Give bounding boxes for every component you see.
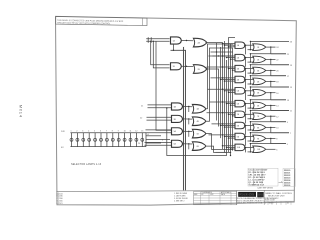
and gate G2 (235, 54, 245, 60)
svg-text:MADE AND PRINTED IN U.S.A.: MADE AND PRINTED IN U.S.A. (237, 202, 263, 205)
svg-text:SELECTOR LAMPS 1-13: SELECTOR LAMPS 1-13 (71, 163, 102, 166)
title strip separator line (56, 190, 294, 191)
and gate G9 (235, 133, 245, 139)
or gate H9 (253, 135, 266, 142)
wire U5B out to bus (205, 134, 233, 150)
lamp L12 (135, 131, 138, 147)
input stub row B2 (140, 117, 171, 120)
title block dividers (237, 190, 264, 205)
wire U1A out (182, 40, 194, 42)
wire H8 output net 10 (265, 127, 289, 133)
wire taps to and gate G9 (209, 134, 236, 139)
wire taps to and gate G3 (207, 66, 236, 71)
wire taps to and gate G2 (209, 55, 236, 60)
svg-text:.XXX: .XXX (210, 194, 213, 196)
and gate U3B (172, 115, 183, 122)
drawing notes block (174, 193, 188, 203)
svg-text:T1 XFMR 24 V CT: T1 XFMR 24 V CT (249, 184, 265, 187)
wire taps to and gate G5 (208, 89, 236, 94)
wire H1 output net 24 (265, 46, 286, 53)
wire upper output net 21 (250, 53, 290, 56)
svg-text:.XX: .XX (201, 194, 203, 196)
wire upper output net 15 (250, 86, 293, 89)
and gate U1B (171, 63, 182, 70)
wire taps to and gate G4 (211, 77, 236, 82)
wire bus top jumpers (211, 51, 234, 56)
lamp L13 (141, 131, 144, 147)
and gate U5A (172, 128, 183, 135)
wire taps to and gate G7 (207, 112, 236, 117)
svg-text:4: 4 (88, 131, 89, 133)
wire upper output net 17 (250, 75, 290, 78)
and gate G4 (235, 76, 245, 82)
wire G10 out to H10 (244, 144, 254, 153)
wire U4A out to bus (205, 44, 233, 109)
note under table (258, 187, 274, 190)
wire G7 out to H7 (244, 111, 254, 124)
lamp L5 (94, 131, 97, 147)
or gate H7 (253, 113, 266, 120)
label lamp panel (71, 163, 102, 166)
and gate G8 (235, 122, 245, 128)
wire H6 output net 14 (265, 105, 289, 111)
and gate U6A (172, 140, 183, 147)
or gate U2B (193, 65, 206, 74)
or gate U5B (192, 129, 205, 138)
or gate U4A (192, 105, 205, 114)
svg-text:5: 5 (94, 131, 95, 133)
wire upper output net 11 (250, 110, 293, 113)
svg-text:10: 10 (124, 131, 126, 133)
svg-text:4. SEE SHT 2: 4. SEE SHT 2 (174, 200, 185, 202)
revision table (57, 192, 63, 205)
or gate U4B (192, 117, 205, 126)
wire H9 output net 8 (265, 138, 286, 144)
wire U1B out (182, 65, 194, 67)
wire bus from input stubs down left column (150, 41, 171, 131)
svg-text:550326: 550326 (284, 185, 290, 187)
notes box (56, 17, 147, 26)
or gate H5 (253, 89, 266, 96)
title text (265, 192, 293, 202)
svg-text:M014: M014 (19, 105, 23, 118)
svg-text:7: 7 (106, 131, 107, 133)
wire U3A out (183, 106, 192, 108)
input stub row B1 (141, 105, 171, 108)
connector input stub J1-2 (146, 40, 169, 43)
reference designation table (248, 168, 278, 186)
wire U5A out (183, 130, 192, 132)
lamp L8 (111, 131, 114, 147)
svg-text:50320: 50320 (269, 203, 274, 205)
manufacturer address lines (237, 197, 269, 205)
or gate H8 (253, 124, 266, 131)
wire upper output net 13 (250, 99, 290, 102)
wire inter-column junctions left block (186, 40, 227, 153)
wire feedback loop bottom (166, 60, 226, 156)
or gate H6 (253, 102, 266, 109)
wire taps to and gate G1 (222, 43, 235, 48)
wire bus matrix verticals (217, 37, 236, 156)
and gate G3 (235, 65, 245, 71)
wire taps to and gate G10 (222, 145, 235, 150)
svg-text:Rock-Ola: Rock-Ola (239, 193, 254, 197)
wire U2A out to bus (205, 43, 222, 149)
wire bus pair long vertical (171, 44, 186, 190)
svg-text:DRN: DRN (194, 194, 197, 196)
svg-text:12: 12 (135, 131, 137, 133)
wire upper output net 23 (250, 41, 293, 44)
title block fields row (264, 201, 294, 205)
lamp L2 (76, 131, 79, 147)
svg-text:LAST REF DESIG: LAST REF DESIG (258, 187, 274, 190)
wire U4B out to bus (205, 48, 233, 121)
wire G2 out to H2 (244, 54, 254, 67)
or gate H3 (253, 67, 266, 74)
wire G8 out to H8 (244, 122, 254, 135)
wire U6A out (183, 143, 192, 145)
approvals table (194, 191, 237, 205)
and gate G10 (235, 144, 245, 150)
and gate G6 (235, 100, 245, 106)
connector input stub J1-1 (146, 37, 169, 40)
wire upper output net 9 (250, 121, 289, 124)
and gate G5 (235, 88, 245, 94)
or gate H4 (253, 78, 266, 85)
svg-text:13: 13 (141, 131, 143, 133)
wire G1 out to H1 (244, 41, 254, 54)
or gate U2A (193, 38, 206, 47)
drawing number M014 vertical text (19, 105, 23, 118)
svg-text:8: 8 (112, 131, 113, 133)
svg-text:2: 2 (76, 131, 77, 133)
wire ladder right end (146, 133, 170, 147)
reference qty column (283, 169, 295, 187)
lamp L4 (88, 131, 91, 147)
lamp L6 (100, 131, 103, 147)
wire U2B out to bus (205, 69, 218, 127)
or gate U6B (192, 142, 205, 151)
and gate U1A (171, 37, 182, 44)
lamp L3 (82, 131, 85, 147)
lamp ladder bottom rail (61, 147, 146, 149)
wire G5 out to H5 (244, 87, 254, 100)
wire U3B out (183, 118, 192, 120)
wire upper output net 5 (250, 143, 289, 146)
and gate G7 (235, 111, 245, 117)
wire H3 output net 20 (265, 70, 286, 76)
wire U6B out to bus (205, 146, 231, 153)
svg-text:24V: 24V (61, 131, 65, 133)
lamp L1 (70, 131, 73, 147)
svg-text:3: 3 (82, 131, 83, 133)
svg-text:1: 1 (71, 131, 72, 133)
or gate H1 (253, 44, 266, 51)
lamp L9 (117, 131, 120, 147)
input stub row B4 (138, 142, 171, 145)
svg-text:11: 11 (130, 131, 132, 133)
wire upper output net 19 (250, 64, 293, 67)
wire taps to and gate G8 (212, 123, 236, 128)
svg-text:6: 6 (100, 131, 101, 133)
svg-text:1/1: 1/1 (287, 203, 289, 205)
arrow to qty column (279, 182, 283, 183)
lamp L7 (105, 131, 108, 147)
wire G3 out to H3 (244, 65, 254, 78)
svg-text:MFG: MFG (258, 195, 263, 197)
wire H10 output net 6 (265, 149, 278, 151)
wire taps to and gate G6 (210, 101, 236, 106)
and gate U3A (172, 103, 183, 110)
wire H5 output net 16 (265, 92, 286, 100)
manufacturer logo Rock-Ola (238, 192, 264, 197)
wire H4 output net 18 (265, 81, 289, 87)
or gate H2 (253, 56, 266, 63)
svg-text:E 2521: E 2521 (57, 203, 63, 205)
wire G4 out to H4 (244, 76, 254, 89)
wire H2 output net 22 (265, 59, 289, 65)
wire G9 out to H9 (244, 133, 254, 146)
lamp L11 (129, 131, 132, 147)
or gate H10 (253, 146, 266, 153)
wire upper output net 7 (250, 132, 292, 135)
and gate G1 (235, 42, 245, 48)
input stub row B3 (146, 130, 172, 133)
lamp L10 (123, 131, 126, 147)
svg-text:9: 9 (118, 131, 119, 133)
wire G6 out to H6 (244, 100, 254, 113)
lamp ladder top rail (61, 131, 146, 133)
wire H7 output net 12 (265, 116, 286, 122)
